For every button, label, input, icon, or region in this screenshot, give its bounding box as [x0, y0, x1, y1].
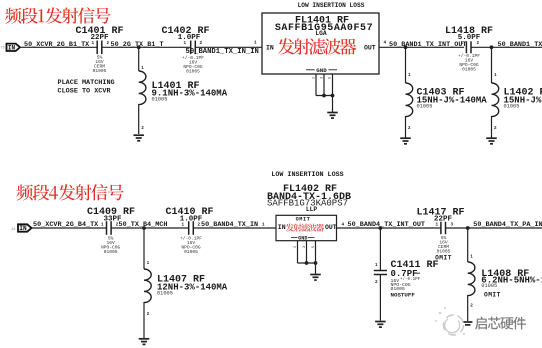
wire	[467, 228, 469, 262]
spec C1403 01005	[417, 104, 433, 110]
inductor L1407	[144, 269, 151, 303]
specs C1402	[182, 55, 204, 75]
pin 2 of C1402	[200, 41, 203, 46]
svg-text:LGA: LGA	[315, 30, 327, 37]
pin label IN	[266, 45, 274, 52]
spec L1401 01005	[152, 97, 168, 103]
label OMIT (FL1402)	[296, 217, 311, 223]
wire	[405, 116, 407, 138]
label 发射滤波器 (red, TX filter)	[278, 38, 356, 54]
pin 4 of FL1401	[384, 41, 387, 46]
svg-text:2: 2	[470, 304, 473, 309]
svg-text:50_BAND1_TX: 50_BAND1_TX	[498, 41, 542, 49]
op block FL1402 body	[276, 215, 337, 240]
svg-text:1: 1	[494, 73, 497, 78]
svg-text:IN: IN	[8, 45, 16, 52]
capacitor C1411	[374, 271, 387, 275]
wire	[379, 228, 381, 270]
specs C1409	[101, 235, 121, 255]
pin 2 of C1401	[107, 41, 110, 46]
svg-text:50_BAND4_TX_INT_OUT: 50_BAND4_TX_INT_OUT	[348, 221, 426, 229]
wire	[446, 227, 542, 229]
ground	[375, 322, 386, 328]
pin label IN (FL1402)	[278, 224, 286, 231]
label SAFFB1G73KA0PS7	[267, 199, 348, 209]
svg-text:4: 4	[342, 223, 345, 228]
capacitor C1401	[97, 41, 102, 55]
wire	[193, 227, 276, 229]
spec C1411 01005	[391, 286, 406, 292]
watermark text 启芯硬件	[475, 317, 526, 330]
pin 2 of C1410	[198, 222, 201, 227]
net 50_XCVR_2G_B1_TX	[24, 41, 90, 49]
svg-text:2: 2	[200, 41, 203, 46]
net 50_BAND4_TX_IN	[201, 221, 258, 229]
svg-text:50_BAND4_TX_PA_IN: 50_BAND4_TX_PA_IN	[473, 221, 542, 229]
net label 频段4发射信号 (red title band4)	[16, 184, 123, 200]
label OMIT (L1417)	[435, 254, 452, 261]
svg-text:50_BAND4_TX_IN: 50_BAND4_TX_IN	[201, 221, 258, 229]
label L1407 RF	[157, 275, 205, 286]
capacitor C1402	[191, 41, 196, 55]
net 50_BAND4_TX_PA_IN	[473, 221, 542, 229]
capacitor L1418	[466, 41, 471, 53]
spec L1402 01005	[504, 104, 520, 110]
svg-text:50_XCVR_2G_B1_TX: 50_XCVR_2G_B1_TX	[24, 41, 90, 49]
label L1417 RF	[416, 207, 464, 218]
junction node (to L1402)	[490, 45, 494, 49]
label C1409 RF	[87, 207, 135, 218]
wire	[32, 227, 107, 229]
junction gnd pins	[322, 94, 334, 98]
ground	[327, 113, 338, 119]
svg-text:NOSTUFF: NOSTUFF	[391, 292, 416, 299]
svg-text:OUT: OUT	[364, 45, 376, 52]
port tag IN (band1 TX input)	[7, 44, 21, 52]
pin 1 of L1417	[436, 223, 439, 228]
pin 5 of FL1401 (gnd)	[329, 76, 333, 79]
wire	[195, 46, 262, 48]
spec L1408 01005	[481, 283, 497, 289]
op block FL1401 body	[262, 13, 379, 74]
pin 2 of L1402	[494, 126, 497, 131]
pin 1 of C1409	[101, 222, 104, 227]
pin 4 of FL1402	[342, 223, 345, 228]
capacitor C1410	[189, 221, 194, 235]
svg-text:2: 2	[147, 312, 150, 317]
svg-text:1: 1	[470, 255, 473, 260]
net 50_XCVR_2G_B4_TX	[33, 221, 99, 229]
svg-text:CLOSE TO XCVR: CLOSE TO XCVR	[58, 88, 112, 96]
pin label OUT	[364, 45, 376, 52]
pin 1 of C1403	[408, 73, 411, 78]
pin 3 of FL1402 (gnd)	[303, 245, 307, 248]
ground	[463, 322, 473, 325]
svg-text:01005: 01005	[186, 69, 200, 75]
svg-text:1: 1	[262, 223, 265, 228]
svg-text:IN: IN	[266, 45, 274, 52]
svg-text:4: 4	[384, 41, 387, 46]
net 50_2G_TX_B1_T	[111, 41, 164, 49]
junction node (C1401/C1402/L1401)	[137, 45, 141, 49]
capacitor L1417	[441, 222, 446, 235]
pin 3 of FL1401 (gnd)	[321, 76, 325, 79]
wire	[111, 227, 189, 229]
svg-text:LOW INSERTION LOSS: LOW INSERTION LOSS	[298, 2, 365, 9]
label SAFFB1G95AA0F57	[275, 23, 373, 34]
net label 频段1发射信号 (red title band1)	[5, 7, 111, 23]
svg-text:1: 1	[408, 73, 411, 78]
svg-text:2: 2	[408, 126, 411, 131]
inductor C1403	[406, 83, 413, 117]
inductor L1402	[492, 83, 499, 117]
junction node (to C1403)	[404, 45, 408, 49]
specs L1418	[458, 53, 480, 73]
note LOW INSERTION LOSS (band4)	[271, 171, 343, 179]
value 12NH-3%-140MA	[157, 282, 228, 292]
value 1.0PF	[180, 215, 203, 223]
junction node (to C1411)	[379, 226, 383, 230]
svg-text:2: 2	[141, 126, 144, 131]
wire	[298, 241, 316, 263]
wire	[138, 104, 140, 134]
net 50_BAND1_TX_INT_OUT	[389, 41, 467, 49]
svg-text:+/-0.1PF: +/-0.1PF	[400, 277, 421, 282]
ground	[400, 138, 411, 144]
label C1402 RF	[161, 26, 209, 37]
wire	[138, 47, 140, 71]
pin 2 of C1409	[116, 222, 119, 227]
spec C1411 tol	[400, 277, 421, 282]
pin 1 of C1402	[184, 41, 187, 46]
svg-text:GND: GND	[298, 235, 307, 241]
label OMIT (L1408)	[484, 291, 501, 298]
value 0.7PF	[391, 269, 421, 279]
pin 2 of L1407	[147, 312, 150, 317]
svg-text:PLACE MATCHING: PLACE MATCHING	[58, 79, 115, 87]
spec L1407 01005	[157, 291, 173, 297]
value 33PF	[103, 215, 122, 223]
pin 2 of FL1401 (gnd)	[313, 76, 317, 79]
wire	[20, 46, 97, 48]
pin 1 of L1408	[470, 255, 473, 260]
label C1411 RF	[391, 260, 439, 271]
pin 3 of L1417	[451, 223, 454, 228]
pin 2 of L1418	[477, 41, 480, 46]
label 发射滤波器 (red small)	[286, 224, 324, 232]
inductor L1408	[468, 262, 475, 296]
ground	[486, 138, 497, 144]
svg-text:2: 2	[375, 280, 378, 285]
svg-text:50_BAND1_TX_INT_OUT: 50_BAND1_TX_INT_OUT	[389, 41, 467, 49]
svg-text:2: 2	[107, 41, 110, 46]
svg-text:1.0PF: 1.0PF	[178, 34, 201, 42]
label NOSTUFF	[391, 292, 416, 299]
svg-text:2: 2	[494, 126, 497, 131]
svg-text:LLP: LLP	[306, 206, 318, 213]
value 15NH-J% (clipped)	[504, 96, 542, 106]
spec C1411 16V	[391, 278, 400, 284]
svg-text:01005: 01005	[93, 68, 107, 74]
svg-text:44: 44	[11, 228, 15, 232]
pin 1 of C1411	[375, 263, 378, 268]
pin 1 of FL1402	[262, 223, 265, 228]
svg-text:01005: 01005	[462, 67, 476, 73]
pin 2 of L1408	[470, 304, 473, 309]
pin 1 of L1407	[147, 261, 150, 266]
wire	[471, 46, 542, 48]
wire	[316, 74, 333, 96]
label FL1401 RF	[295, 16, 349, 27]
net 50_BAND4_TX_INT_OUT	[348, 221, 426, 229]
value 22PF	[434, 215, 453, 223]
pin 1 of L1418	[461, 41, 464, 46]
pin label OUT (FL1402)	[325, 224, 337, 231]
specs C1401	[93, 55, 107, 75]
spec C1411 dielectric	[391, 282, 411, 288]
label C1401 RF	[75, 26, 123, 37]
value 5.0PF	[458, 34, 481, 42]
label L1401 RF	[152, 81, 200, 92]
value 1.0PF	[178, 34, 201, 42]
svg-text:OMIT: OMIT	[484, 291, 501, 298]
label FL1402 RF	[283, 184, 337, 195]
pin 2 of C1403	[408, 126, 411, 131]
specs C1410	[180, 235, 202, 255]
wire	[337, 227, 441, 229]
svg-text:1: 1	[375, 263, 378, 268]
label LGA	[315, 30, 327, 37]
label C1403 RF	[417, 88, 465, 99]
pin label GND	[306, 67, 337, 74]
pin 1 of L1402	[494, 73, 497, 78]
wire	[491, 47, 493, 83]
wire	[102, 46, 191, 48]
pin 1 of FL1401	[254, 41, 257, 46]
svg-text:OMIT: OMIT	[296, 217, 311, 223]
sheet reference 44	[11, 228, 15, 232]
wire	[379, 46, 464, 48]
wire	[298, 262, 316, 264]
value 6.2NH-5NH%	[481, 276, 542, 286]
pin 1 of L1401	[141, 66, 144, 71]
svg-text:01005: 01005	[157, 291, 173, 297]
wire	[405, 47, 407, 83]
pin 2 of C1411	[375, 280, 378, 285]
value 15NH-J%-140MA	[417, 96, 488, 106]
wire	[143, 302, 145, 338]
ground	[310, 275, 321, 281]
svg-text:3: 3	[451, 223, 454, 228]
wire	[315, 263, 317, 274]
wire	[379, 275, 381, 321]
svg-text:01005: 01005	[481, 283, 497, 289]
wire	[332, 96, 334, 113]
net 50_BAND1_TX	[498, 41, 542, 49]
svg-text:1: 1	[254, 41, 257, 46]
pin 1 of C1410	[182, 222, 185, 227]
svg-text:IN: IN	[19, 225, 27, 232]
port tag IN (band4 TX input)	[18, 224, 32, 232]
wire	[316, 95, 333, 97]
ground	[139, 339, 150, 345]
pin label GND (FL1402)	[291, 235, 315, 241]
svg-text:1: 1	[141, 66, 144, 71]
value 9.1NH-3%-140MA	[152, 89, 228, 99]
wire	[467, 295, 469, 321]
junction node (C1409/C1410/L1407)	[142, 226, 146, 230]
svg-text:50_XCVR_2G_B4_TX: 50_XCVR_2G_B4_TX	[33, 221, 99, 229]
capacitor C1409	[107, 221, 112, 235]
sheet reference 75	[1, 47, 5, 51]
pin 2 of L1401	[141, 126, 144, 131]
net 50_TX_B4_MCH	[119, 221, 168, 229]
svg-text:1: 1	[147, 261, 150, 266]
svg-text:01005: 01005	[417, 104, 433, 110]
wire	[491, 116, 493, 138]
junction node (to L1408)	[466, 226, 470, 230]
svg-text:50_BAND1_TX_IN_IN: 50_BAND1_TX_IN_IN	[186, 48, 259, 56]
svg-text:GND: GND	[316, 67, 327, 74]
ground	[133, 135, 144, 141]
watermark logo (qixin)	[435, 307, 465, 335]
pin 5 of FL1402 (gnd)	[312, 245, 316, 248]
note PLACE MATCHING CLOSE TO XCVR	[58, 79, 115, 96]
wire	[143, 228, 145, 269]
svg-text:01005: 01005	[504, 104, 520, 110]
label BAND4-TX-1.6DB	[267, 192, 351, 203]
label L1418 RF	[445, 26, 493, 37]
note LOW INSERTION LOSS	[298, 2, 365, 9]
net 50_BAND1_TX_IN_IN	[186, 48, 259, 56]
svg-text:01005: 01005	[184, 249, 198, 255]
pin 2 of FL1402 (gnd)	[294, 245, 298, 248]
label C1410 RF	[165, 207, 213, 218]
svg-text:LOW INSERTION LOSS: LOW INSERTION LOSS	[271, 171, 343, 179]
svg-text:75: 75	[1, 47, 5, 51]
label L1408 RF	[481, 269, 529, 280]
svg-text:01005: 01005	[152, 97, 168, 103]
svg-text:IN: IN	[278, 224, 286, 231]
label L1402 RF	[504, 88, 542, 99]
pin 1 of C1401	[92, 41, 95, 46]
svg-text:OUT: OUT	[325, 224, 337, 231]
inductor L1401	[139, 71, 146, 105]
specs L1417	[437, 235, 451, 255]
value 22PF	[90, 34, 109, 42]
label LLP	[306, 206, 318, 213]
svg-text:01005: 01005	[104, 249, 118, 255]
junction gnd pins (FL1402)	[305, 261, 318, 265]
svg-text:2: 2	[477, 41, 480, 46]
